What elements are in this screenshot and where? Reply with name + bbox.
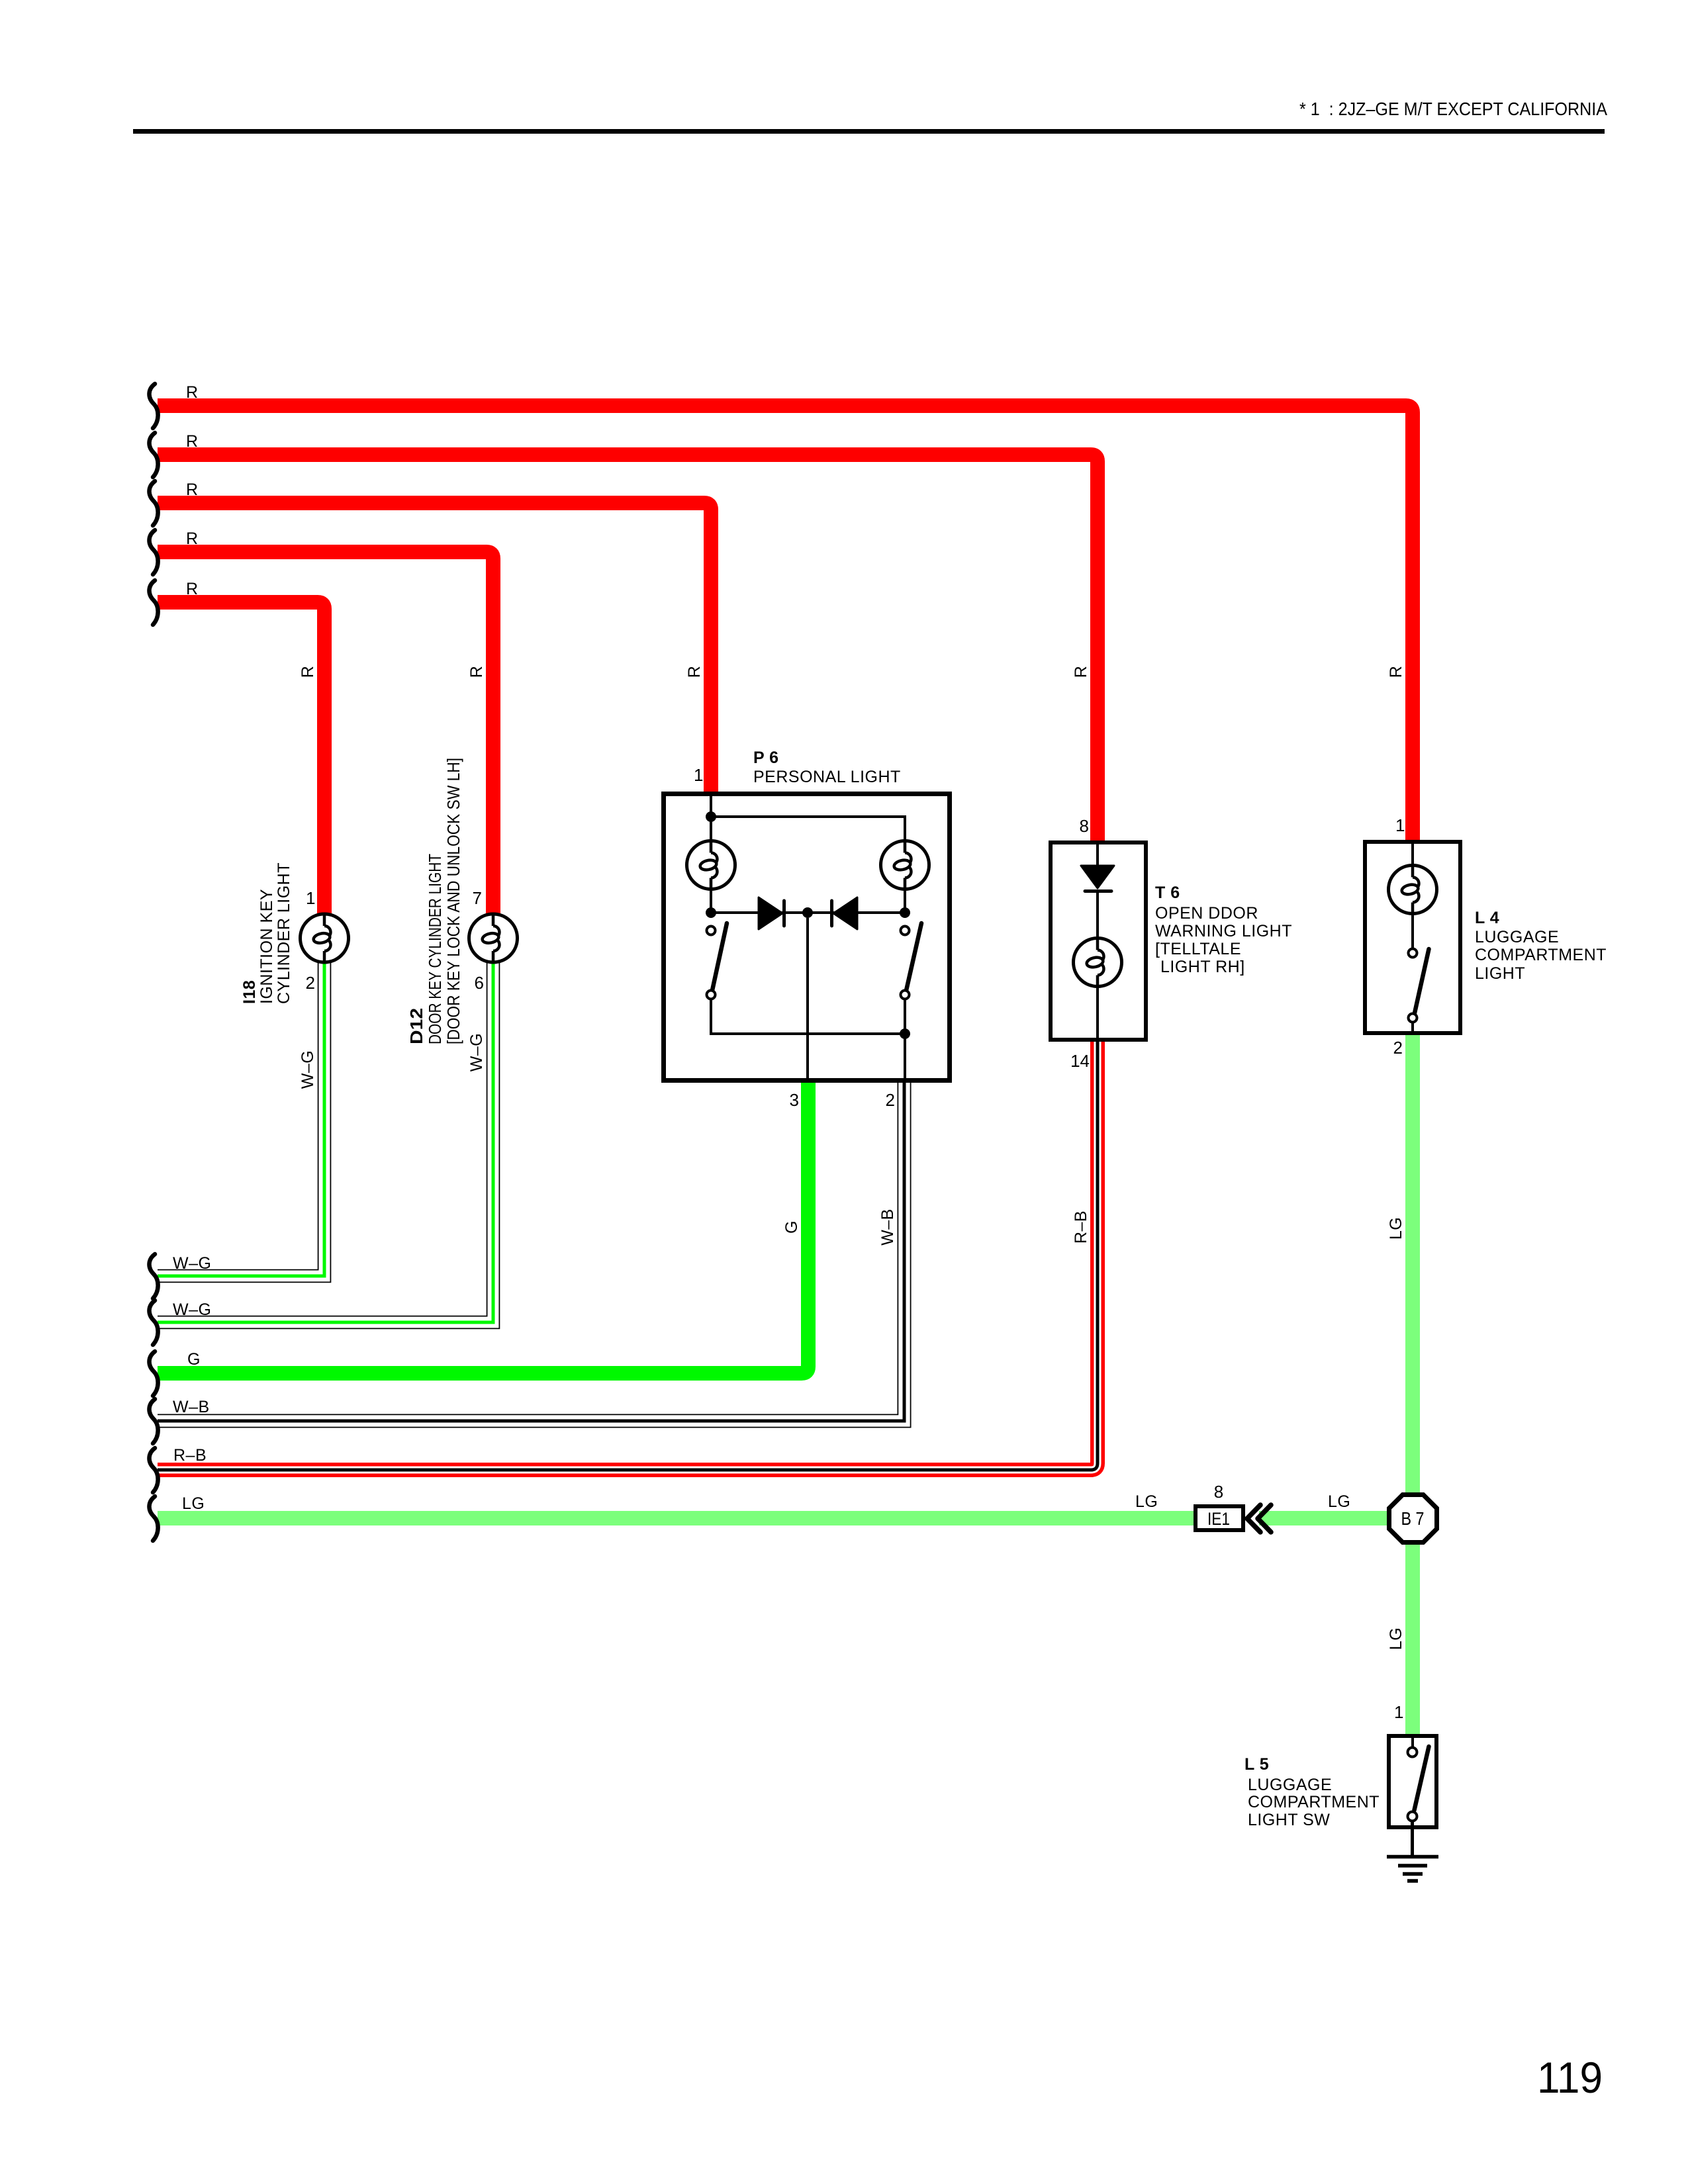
svg-text:L 5: L 5 (1244, 1755, 1269, 1774)
svg-text:R: R (186, 580, 199, 598)
ground symbol (1387, 1857, 1438, 1882)
wire LG horizontal left stub to IE1 (158, 1511, 1194, 1525)
diode T6 (pointing down) (1081, 866, 1114, 891)
svg-text:D12: D12 (406, 1008, 426, 1044)
connector box L4 luggage compartment light (1365, 842, 1460, 1033)
bulb D12 door key cylinder light (469, 914, 518, 962)
node junction right middle (900, 907, 910, 918)
switch P6 left (707, 923, 727, 999)
svg-text:1: 1 (1395, 815, 1405, 835)
svg-text:P 6: P 6 (753, 749, 779, 767)
svg-text:R: R (467, 666, 486, 678)
svg-text:3: 3 (790, 1090, 799, 1110)
connector squiggle row5 (149, 580, 158, 625)
wire LG from B7 down to L5 pin1 (1405, 1544, 1420, 1734)
connector box T6 open door warning light (1051, 842, 1146, 1040)
svg-text:* 1 : 2JZ–GE M/T EXCEPT CALIF: * 1 : 2JZ–GE M/T EXCEPT CALIFORNIA (1299, 99, 1607, 119)
wire R-B from T6 pin14 to left stub (158, 1042, 1098, 1470)
svg-text:119: 119 (1537, 2053, 1603, 2102)
label L4 block (1475, 909, 1607, 983)
bulb I18 ignition key cylinder light (301, 914, 349, 962)
P6 middle rail (711, 911, 905, 914)
P6 center line to pin3 (806, 918, 809, 1081)
svg-text:T 6: T 6 (1155, 884, 1180, 902)
node junction top (706, 811, 716, 822)
bulb P6 right (881, 841, 929, 889)
svg-text:CYLINDER LIGHT: CYLINDER LIGHT (275, 862, 293, 1004)
P6 internal top rail (711, 817, 905, 841)
svg-text:R: R (299, 666, 317, 678)
T6 internal top wire (1096, 842, 1099, 866)
diode D2 (right, pointing left) (832, 897, 858, 929)
label L5 block (1244, 1755, 1380, 1829)
wire G from P6 pin3 to left stub (158, 1083, 808, 1373)
P6 left lower wire (711, 999, 905, 1034)
svg-text:R: R (1072, 666, 1090, 678)
L4 wire bulb to switch (1411, 914, 1414, 949)
svg-text:6: 6 (475, 973, 484, 993)
svg-text:LIGHT RH]: LIGHT RH] (1160, 958, 1245, 976)
svg-text:W–G: W–G (173, 1254, 211, 1273)
L4 wire pin1 to bulb (1411, 842, 1414, 866)
connector box L5 luggage compartment light switch (1389, 1736, 1436, 1827)
svg-text:8: 8 (1214, 1482, 1223, 1502)
switch P6 right (901, 923, 922, 999)
connector squiggle row1 (149, 384, 158, 428)
svg-text:R–B: R–B (1072, 1210, 1090, 1244)
connector squiggle LG row (149, 1496, 158, 1541)
label D12 block (406, 758, 463, 1044)
wire R row1 (to L4) (158, 406, 1413, 840)
svg-text:COMPARTMENT: COMPARTMENT (1248, 1793, 1380, 1811)
svg-text:R: R (186, 432, 199, 451)
connector squiggle G row (149, 1351, 158, 1396)
svg-text:I18: I18 (240, 980, 259, 1004)
L5 wire switch to ground (1411, 1821, 1414, 1855)
svg-text:LG: LG (1328, 1492, 1350, 1511)
connector squiggle W-B row (149, 1399, 158, 1443)
svg-text:8: 8 (1080, 816, 1089, 836)
chevron arrows at IE1 (1247, 1505, 1271, 1532)
label T6 block (1155, 884, 1292, 976)
P6 bulb-to-node stubs (711, 889, 905, 913)
P6 internal wire from pin1 (710, 792, 712, 841)
wire R row4 (to D12 pin7) (158, 552, 493, 914)
wire W-B from P6 pin2 to left stub (158, 1083, 904, 1421)
svg-text:W–B: W–B (173, 1398, 210, 1416)
svg-text:R: R (186, 529, 199, 548)
svg-text:LUGGAGE: LUGGAGE (1475, 928, 1559, 946)
wire LG between chevron and B7 (1259, 1511, 1389, 1525)
wire W-G from I18 pin2 to left stub (158, 960, 324, 1276)
wire R row3 (to P6 pin1) (158, 503, 711, 792)
connector squiggle W-G row (149, 1254, 158, 1298)
svg-text:2: 2 (886, 1090, 895, 1110)
svg-text:R–B: R–B (173, 1446, 207, 1465)
connector box P6 personal light (664, 794, 950, 1081)
svg-text:LIGHT: LIGHT (1475, 964, 1525, 983)
connector squiggle row2 (149, 433, 158, 477)
header rule (133, 129, 1605, 134)
L4 wire switch to pin2 (1411, 1023, 1414, 1033)
svg-text:R: R (186, 383, 199, 402)
svg-text:W–G: W–G (173, 1300, 211, 1319)
bulb T6 (1074, 938, 1122, 987)
bulb P6 left (687, 841, 735, 889)
L5 wire pin1 to switch (1411, 1736, 1414, 1747)
svg-text:LG: LG (1387, 1217, 1405, 1240)
svg-text:DOOR KEY CYLINDER LIGHT: DOOR KEY CYLINDER LIGHT (425, 854, 445, 1044)
svg-text:2: 2 (306, 973, 315, 993)
wire R row5 (to I18 pin1) (158, 602, 324, 914)
P6 right lower wire to pin2 (904, 999, 906, 1081)
svg-text:7: 7 (473, 888, 482, 908)
svg-text:LUGGAGE: LUGGAGE (1248, 1776, 1332, 1794)
svg-text:W–G: W–G (299, 1050, 317, 1089)
junction connector B7 octagon (1389, 1495, 1437, 1543)
connector IE1 (1196, 1506, 1243, 1530)
svg-text:1: 1 (1394, 1702, 1403, 1722)
svg-text:PERSONAL LIGHT: PERSONAL LIGHT (753, 768, 901, 786)
svg-text:OPEN DDOR: OPEN DDOR (1155, 904, 1258, 923)
label I18 block (240, 862, 293, 1004)
svg-text:L 4: L 4 (1475, 909, 1499, 927)
switch L5 (1408, 1747, 1429, 1821)
svg-text:14: 14 (1070, 1051, 1090, 1071)
svg-text:LG: LG (182, 1494, 205, 1513)
svg-text:2: 2 (1393, 1038, 1403, 1058)
svg-text:B 7: B 7 (1401, 1508, 1425, 1529)
svg-text:1: 1 (306, 888, 315, 908)
svg-text:R: R (1387, 666, 1405, 678)
diode D1 (left, pointing right) (759, 897, 784, 929)
connector squiggle W-G row2 (149, 1300, 158, 1345)
svg-text:WARNING LIGHT: WARNING LIGHT (1155, 922, 1292, 940)
connector squiggle row4 (149, 530, 158, 574)
svg-text:LG: LG (1135, 1492, 1158, 1511)
bulb L4 (1389, 866, 1437, 914)
svg-text:[TELLTALE: [TELLTALE (1155, 940, 1241, 958)
svg-text:LG: LG (1387, 1627, 1405, 1650)
node junction lower right (900, 1028, 910, 1039)
svg-text:G: G (187, 1350, 201, 1369)
svg-text:W–B: W–B (878, 1208, 897, 1246)
connector squiggle row3 (149, 481, 158, 525)
wire W-G from D12 pin6 to left stub (158, 960, 493, 1322)
svg-text:W–G: W–G (467, 1033, 486, 1071)
connector squiggle R-B row (149, 1448, 158, 1492)
wire R row2 (to T6) (158, 455, 1098, 841)
svg-text:R: R (685, 666, 704, 678)
svg-text:COMPARTMENT: COMPARTMENT (1475, 946, 1607, 964)
T6 wire bulb to pin14 (1096, 987, 1099, 1040)
svg-text:IGNITION KEY: IGNITION KEY (258, 889, 276, 1004)
svg-text:IE1: IE1 (1207, 1509, 1230, 1529)
node junction center (802, 907, 813, 918)
switch L4 (1409, 949, 1429, 1023)
svg-text:1: 1 (694, 765, 703, 785)
svg-text:[DOOR KEY LOCK AND UNLOCK SW L: [DOOR KEY LOCK AND UNLOCK SW LH] (444, 758, 463, 1044)
wire LG from L4 pin2 down to B7 (1405, 1035, 1420, 1493)
svg-text:R: R (186, 480, 199, 499)
node junction left middle (706, 907, 716, 918)
svg-text:LIGHT SW: LIGHT SW (1248, 1811, 1330, 1829)
T6 wire diode to bulb (1096, 893, 1099, 938)
svg-text:G: G (782, 1220, 801, 1234)
